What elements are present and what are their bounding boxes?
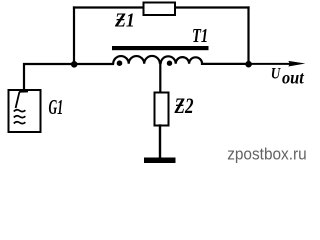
transformer T1 winding left (3 humps) [113,56,160,64]
svg-text:Ƶ1: Ƶ1 [114,10,135,32]
wire: left vertical of top branch [73,8,75,65]
impedance Z2 box [155,93,169,126]
resistor Z1 [144,3,176,16]
wire: right vertical of top branch [247,8,249,65]
svg-text:zpostbox.ru: zpostbox.ru [227,144,307,163]
wire: output with arrow shaft [249,63,293,65]
polarity dot primary [117,60,123,66]
svg-text:out: out [282,68,305,88]
polarity dot secondary [167,61,172,66]
svg-text:T1: T1 [192,26,208,47]
transformer T1 core bar [112,46,209,50]
generator symbol wave 2 [14,116,26,118]
wire: G1 lead (up from generator, then right to node A) [24,64,74,90]
wire: center tap down from winding [159,64,161,92]
arrowhead Uout [288,61,305,67]
wire: top branch horizontal [74,6,249,8]
generator symbol gamma [16,92,28,109]
wire: Z2 to ground [159,126,161,159]
generator symbol wave 1 [14,110,26,112]
ground bar [144,158,176,164]
generator symbol wave 3 [14,122,26,124]
wire: transformer output to node B [202,63,249,65]
node A junction dot [71,61,78,68]
generator G1 box [9,90,41,132]
transformer T1 winding right (3 humps) [161,56,202,63]
svg-text:G1: G1 [49,95,64,119]
wire: node A to transformer primary [74,63,113,65]
node B junction dot [245,61,252,68]
svg-text:Ƶ2: Ƶ2 [174,93,194,118]
svg-text:U: U [271,65,282,82]
